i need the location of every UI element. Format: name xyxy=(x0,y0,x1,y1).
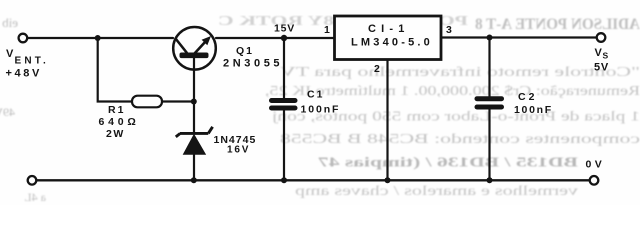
svg-text:vermelhos e amarelos / chaves: vermelhos e amarelos / chaves amp xyxy=(295,183,578,198)
node 15V junction xyxy=(281,35,287,41)
svg-text:S: S xyxy=(603,51,609,61)
svg-text:16V: 16V xyxy=(227,145,250,156)
svg-text:2N3055: 2N3055 xyxy=(223,58,283,70)
svg-text:C1: C1 xyxy=(307,89,324,101)
svg-text:3: 3 xyxy=(446,24,452,36)
svg-text:LM340-5.0: LM340-5.0 xyxy=(351,37,433,49)
terminal Vent input xyxy=(19,34,28,43)
wire C1 bottom xyxy=(283,110,285,180)
svg-text:2W: 2W xyxy=(106,128,125,140)
node C1 bottom junction xyxy=(281,177,287,183)
svg-text:100nF: 100nF xyxy=(514,104,553,116)
transistor Q1 2N3055 xyxy=(173,27,216,70)
svg-text:eib: eib xyxy=(2,15,18,30)
capacitor C2 xyxy=(477,99,502,107)
svg-text:componentes contendo: BC548 B: componentes contendo: BC548 B BC558 xyxy=(280,131,640,146)
svg-text:640Ω: 640Ω xyxy=(99,116,140,128)
svg-text:+48V: +48V xyxy=(6,68,42,80)
regulator CI-1 LM340-5.0 xyxy=(335,16,442,60)
svg-text:a 4L: a 4L xyxy=(24,190,46,204)
wire R1 right to base node xyxy=(162,100,194,102)
svg-text:CI-1: CI-1 xyxy=(368,23,410,35)
wire regulator pin 2 down xyxy=(386,60,388,181)
svg-text:BD135 / BD136 / (timpias 47: BD135 / BD136 / (timpias 47 xyxy=(318,155,578,170)
svg-text:C2: C2 xyxy=(518,91,537,103)
svg-text:15V: 15V xyxy=(274,23,295,35)
terminal 0V bottom right xyxy=(590,176,599,185)
svg-text:R1: R1 xyxy=(108,104,125,116)
node zener bottom junction xyxy=(191,177,197,183)
wire C1 top xyxy=(283,38,285,99)
svg-text:Q1: Q1 xyxy=(236,45,254,57)
wire base vertical to zener xyxy=(193,58,195,133)
node pin2 bottom junction xyxy=(385,177,391,183)
svg-text:V: V xyxy=(595,47,603,59)
capacitor C1 xyxy=(272,101,296,109)
node C2 bottom junction xyxy=(487,177,493,183)
svg-text:0V: 0V xyxy=(586,159,606,171)
svg-text:49V: 49V xyxy=(0,105,15,119)
wire C2 top xyxy=(488,38,490,98)
svg-text:V: V xyxy=(6,48,14,60)
wire bottom 0V rail xyxy=(36,179,590,181)
terminal 0V bottom left xyxy=(28,176,37,185)
node R1 top junction xyxy=(95,35,101,41)
wire C2 bottom xyxy=(488,109,490,180)
wire top rail middle (emitter to regulator pin 1) xyxy=(216,37,334,39)
svg-text:5V: 5V xyxy=(594,62,609,74)
svg-text:"Controle remoto infravermelho: "Controle remoto infravermelho para TV xyxy=(280,64,640,79)
wire zener to bottom rail xyxy=(193,154,195,180)
resistor R1 xyxy=(132,96,162,108)
zener diode 1N4745 xyxy=(176,127,213,154)
wire top rail left xyxy=(27,37,173,39)
svg-text:ENT.: ENT. xyxy=(15,56,49,67)
svg-text:ADILSON PONTE A-T 8: ADILSON PONTE A-T 8 xyxy=(475,16,640,33)
svg-text:2: 2 xyxy=(374,63,380,75)
node C2 top junction xyxy=(487,35,493,41)
terminal Vs output xyxy=(597,33,606,42)
svg-text:1: 1 xyxy=(324,24,330,36)
node base/R1 junction xyxy=(191,99,197,105)
wire R1 branch vertical xyxy=(98,38,132,102)
svg-text:100nF: 100nF xyxy=(301,104,341,116)
wire top rail right (pin 3 to Vs terminal) xyxy=(442,36,598,38)
